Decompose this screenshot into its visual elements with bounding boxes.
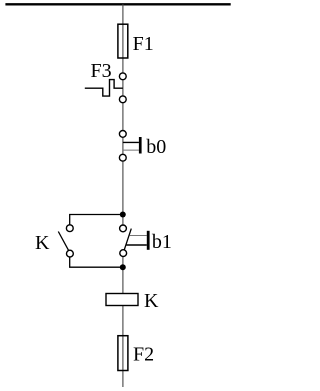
svg-text:F2: F2 (133, 344, 154, 366)
svg-text:F1: F1 (133, 33, 154, 55)
svg-text:K: K (144, 290, 159, 312)
svg-text:b0: b0 (146, 136, 166, 158)
svg-text:b1: b1 (152, 231, 172, 253)
svg-text:F3: F3 (91, 60, 112, 82)
svg-text:K: K (35, 232, 50, 254)
